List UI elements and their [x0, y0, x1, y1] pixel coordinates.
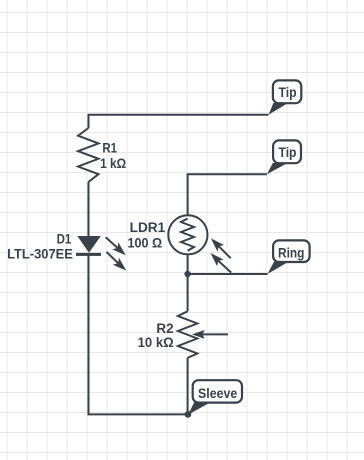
LED D1 [76, 236, 126, 271]
LDR light arrow B [211, 253, 232, 273]
svg-text:10 kΩ: 10 kΩ [138, 335, 174, 350]
svg-text:1 kΩ: 1 kΩ [100, 156, 126, 171]
svg-text:LDR1: LDR1 [130, 220, 166, 235]
LED light arrow 2 [107, 252, 127, 271]
svg-text:Tip: Tip [279, 84, 297, 100]
potentiometer R2 [178, 311, 228, 358]
svg-text:R2: R2 [156, 321, 173, 336]
wire Tip2 net: LDR top lead up and right to Tip2 [188, 174, 267, 217]
wire R2 bottom lead [187, 358, 189, 415]
wire left branch LED cathode to bottom net [88, 256, 90, 415]
junction node Sleeve [185, 411, 192, 418]
svg-text:Sleeve: Sleeve [198, 385, 237, 401]
wire left branch R1 bottom to LED top [88, 182, 90, 237]
terminal flag Ring [268, 240, 310, 274]
terminal flag Tip (middle) [267, 140, 301, 174]
label R2 [138, 321, 174, 350]
resistor R1 [78, 128, 99, 182]
photoresistor LDR1 [168, 215, 231, 272]
svg-text:D1: D1 [57, 231, 72, 246]
label LDR1 [128, 220, 166, 251]
R2 wiper arrow [192, 330, 228, 339]
wire top net: left branch top corner to Tip1 [89, 115, 269, 128]
wire Ring net: junction to Ring flag [188, 251, 268, 274]
wire bottom net to junction [88, 413, 189, 415]
label D1 [7, 231, 73, 261]
terminal flag Tip (top) [269, 80, 302, 114]
svg-text:LTL-307EE: LTL-307EE [7, 247, 73, 262]
label R1 designator [100, 140, 126, 171]
svg-text:100 Ω: 100 Ω [128, 236, 163, 251]
terminal flag Sleeve [188, 380, 242, 414]
LED light arrow 1 [106, 237, 126, 255]
svg-text:Ring: Ring [278, 245, 304, 261]
junction node Ring [184, 271, 190, 277]
wire R2 top lead [187, 274, 189, 311]
LDR light arrow A [211, 238, 231, 258]
svg-text:R1: R1 [102, 140, 117, 155]
svg-text:Tip: Tip [279, 144, 297, 160]
